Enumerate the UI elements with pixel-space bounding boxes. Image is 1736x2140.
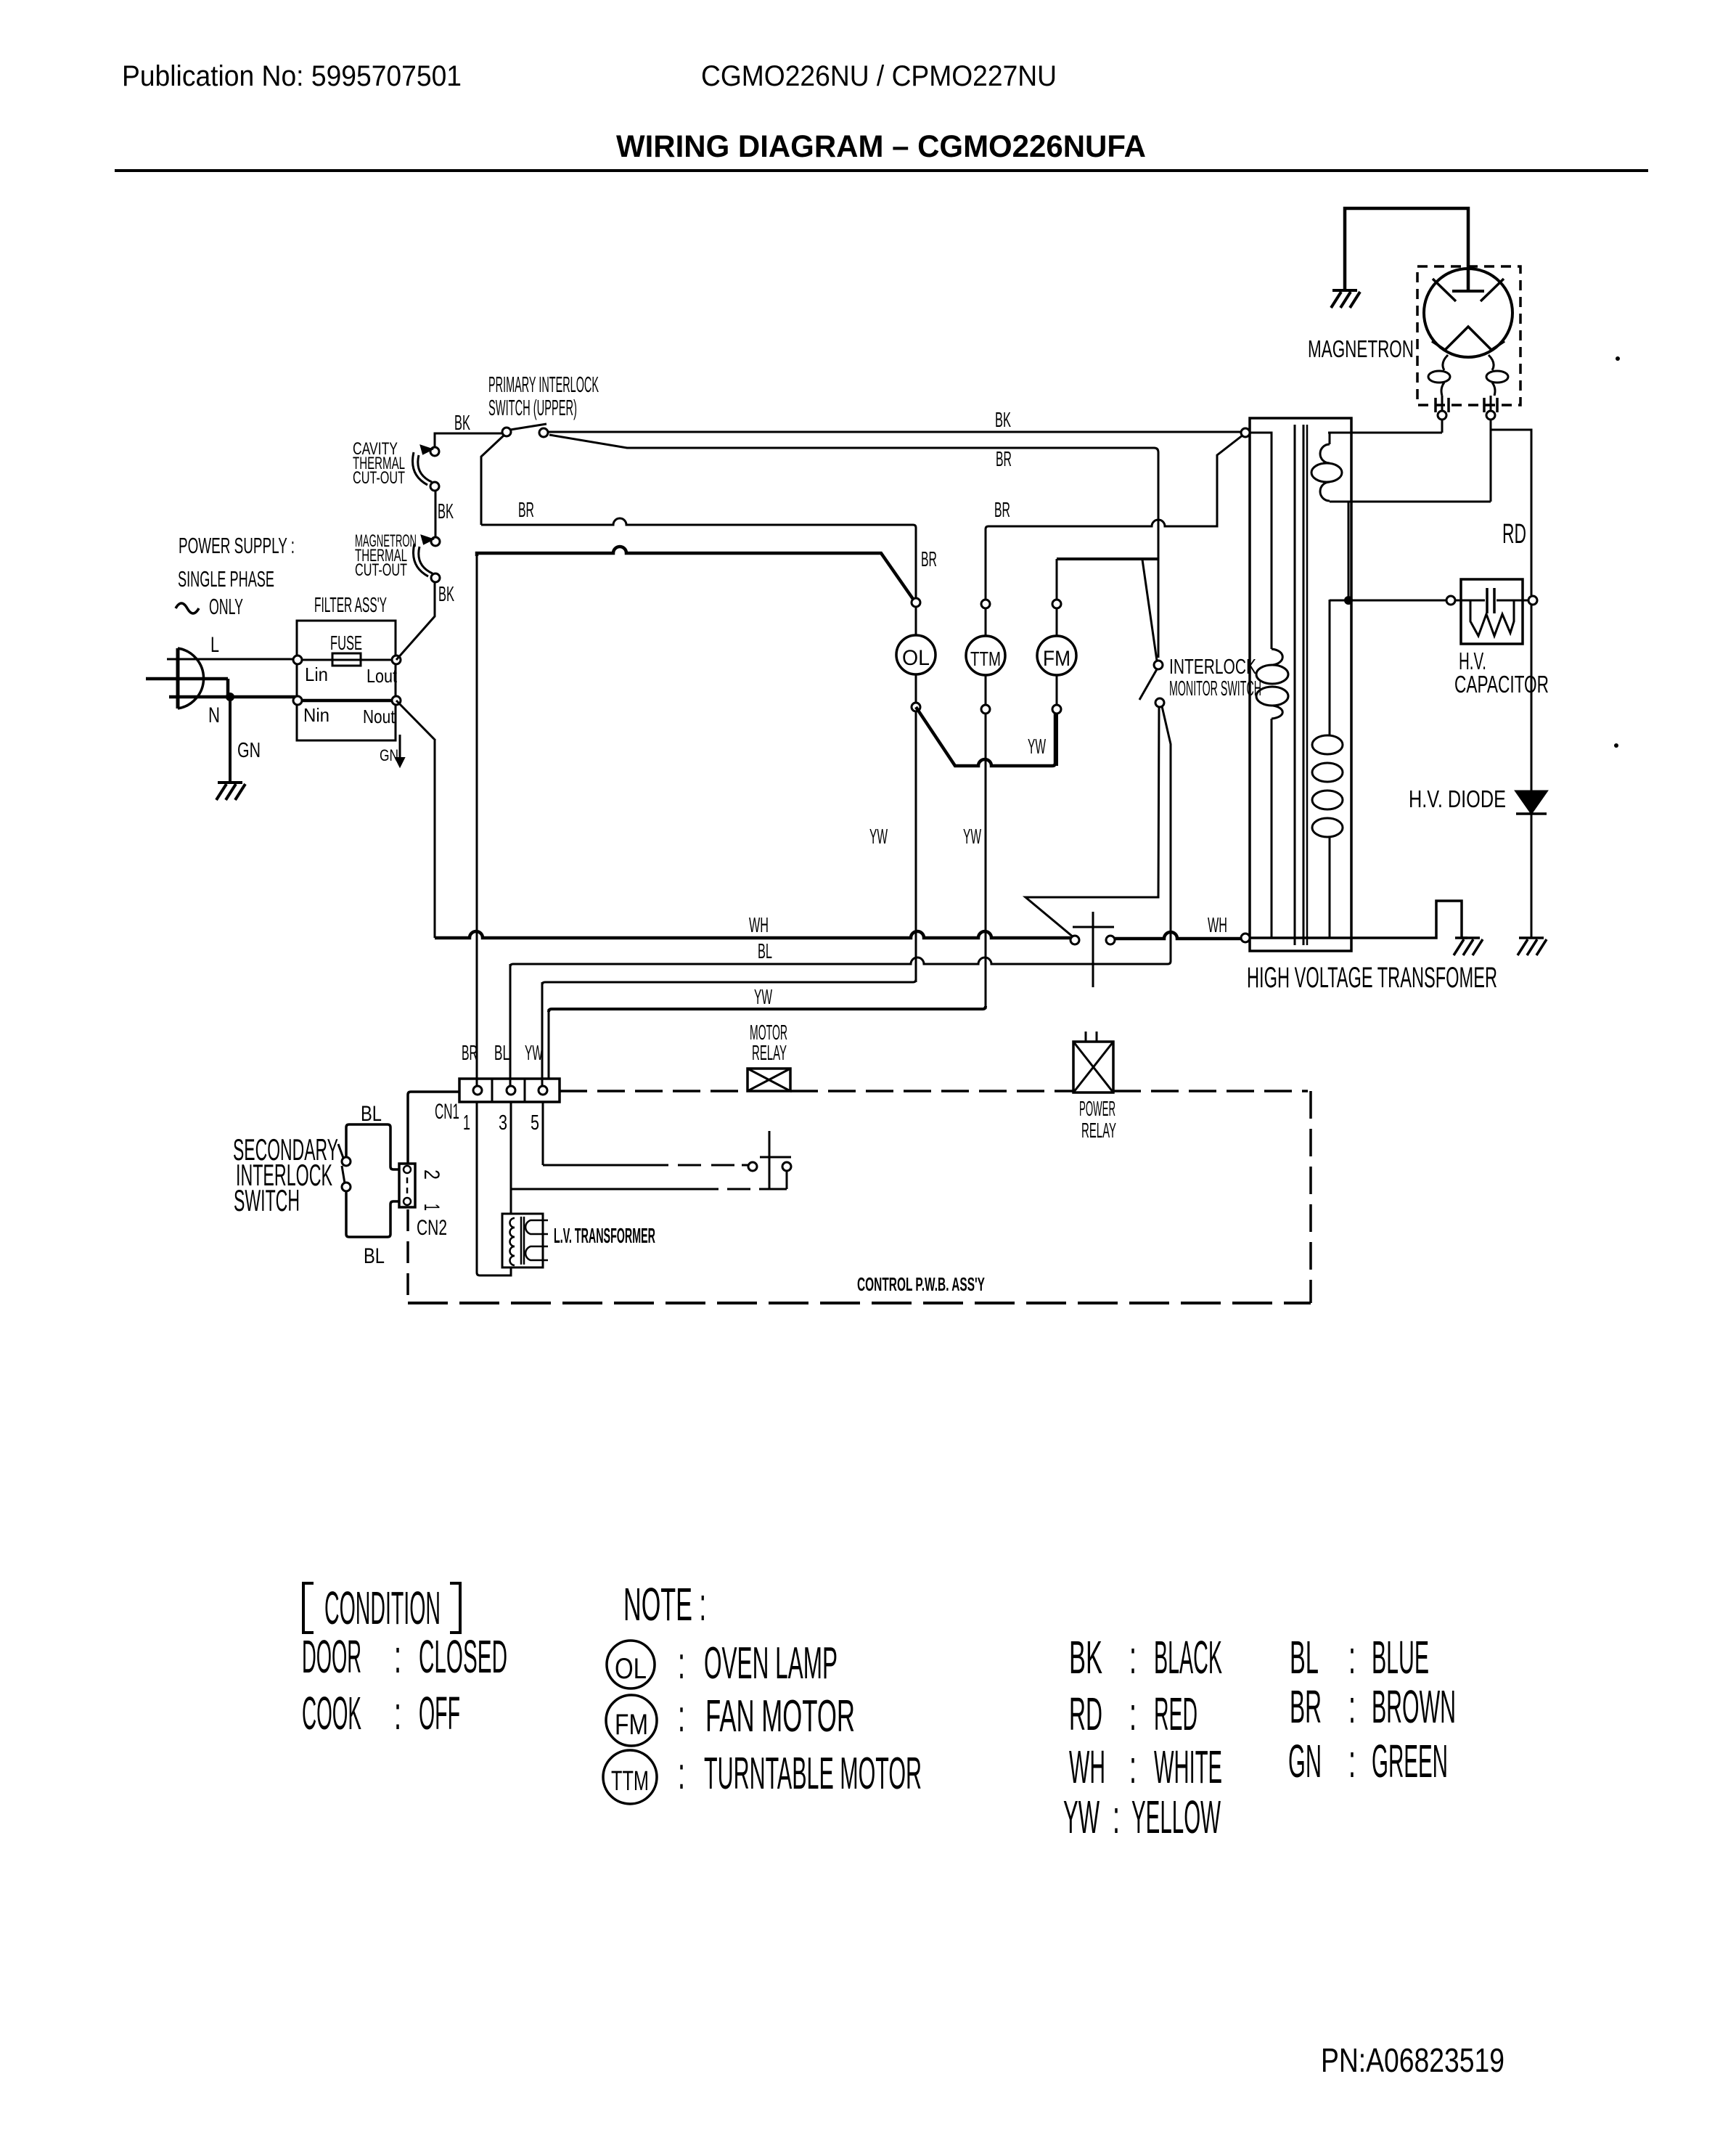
svg-text:CGMO226NU / CPMO227NU: CGMO226NU / CPMO227NU [701, 60, 1057, 92]
svg-text:BR: BR [1290, 1680, 1322, 1733]
svg-text:YW: YW [869, 825, 888, 849]
svg-text:ONLY: ONLY [209, 594, 243, 619]
svg-text:Lout: Lout [367, 665, 398, 687]
svg-text:PN:A06823519: PN:A06823519 [1321, 2041, 1504, 2079]
svg-text::: : [394, 1687, 401, 1739]
svg-text:POWER SUPPLY :: POWER SUPPLY : [179, 533, 295, 558]
svg-text:BK: BK [1069, 1631, 1102, 1683]
svg-text:OFF: OFF [419, 1687, 460, 1739]
svg-text:CN2: CN2 [417, 1216, 447, 1240]
svg-text:YW: YW [1063, 1791, 1100, 1843]
svg-text:CUT-OUT: CUT-OUT [355, 560, 407, 580]
svg-text:CAPACITOR: CAPACITOR [1454, 671, 1549, 698]
svg-text:SINGLE PHASE: SINGLE PHASE [178, 566, 274, 592]
svg-text:WH: WH [1208, 914, 1227, 937]
svg-text:RD: RD [1502, 519, 1526, 550]
svg-text:CONDITION: CONDITION [324, 1582, 441, 1634]
svg-text:BK: BK [438, 500, 454, 523]
svg-text:BK: BK [454, 412, 470, 435]
svg-text:BR: BR [518, 499, 534, 522]
svg-text:OL: OL [615, 1653, 647, 1685]
svg-text:BL: BL [364, 1244, 385, 1268]
svg-text:1: 1 [419, 1204, 443, 1211]
svg-text:Publication No: 5995707501: Publication No: 5995707501 [122, 60, 462, 92]
svg-text:BR: BR [996, 448, 1012, 471]
svg-text::: : [678, 1638, 685, 1688]
svg-text:L.V. TRANSFORMER: L.V. TRANSFORMER [554, 1225, 655, 1248]
svg-text:RELAY: RELAY [1081, 1119, 1116, 1143]
svg-text:5: 5 [531, 1111, 539, 1135]
svg-text:RED: RED [1154, 1688, 1197, 1740]
svg-text:GN: GN [237, 739, 261, 762]
svg-text:MONITOR SWITCH: MONITOR SWITCH [1169, 677, 1261, 701]
svg-text:YELLOW: YELLOW [1131, 1791, 1221, 1843]
svg-text:RELAY: RELAY [752, 1042, 787, 1065]
svg-text::: : [1348, 1631, 1356, 1683]
svg-text:CONTROL P.W.B. ASS'Y: CONTROL P.W.B. ASS'Y [857, 1273, 985, 1295]
svg-text:COOK: COOK [302, 1687, 361, 1739]
svg-text:TURNTABLE MOTOR: TURNTABLE MOTOR [704, 1749, 922, 1799]
svg-text:WH: WH [749, 914, 769, 937]
svg-text:NOTE :: NOTE : [623, 1578, 706, 1630]
svg-text::: : [678, 1691, 685, 1741]
svg-text:1: 1 [463, 1111, 470, 1135]
svg-text:YW: YW [963, 825, 981, 849]
svg-text:YW: YW [525, 1042, 543, 1065]
svg-text:BL: BL [361, 1102, 382, 1126]
svg-text:FILTER ASS'Y: FILTER ASS'Y [314, 594, 387, 617]
svg-text:GREEN: GREEN [1372, 1735, 1448, 1787]
svg-text:BL: BL [758, 940, 772, 963]
svg-text:SWITCH (UPPER): SWITCH (UPPER) [488, 395, 577, 420]
svg-text:BR: BR [921, 548, 937, 571]
svg-text:INTERLOCK: INTERLOCK [1169, 656, 1256, 679]
svg-text:L: L [210, 633, 219, 657]
svg-text:FUSE: FUSE [330, 632, 362, 654]
svg-text:CUT-OUT: CUT-OUT [353, 468, 405, 488]
svg-text:YW: YW [1028, 735, 1046, 759]
svg-text:WIRING DIAGRAM – CGMO226NUFA: WIRING DIAGRAM – CGMO226NUFA [616, 129, 1146, 164]
svg-text:BR: BR [994, 499, 1010, 522]
svg-text:BLUE: BLUE [1372, 1631, 1429, 1683]
svg-text:FM: FM [615, 1709, 648, 1741]
svg-text:POWER: POWER [1079, 1098, 1115, 1121]
svg-text:Lin: Lin [305, 663, 328, 685]
svg-text:TTM: TTM [611, 1766, 649, 1797]
svg-text:N: N [208, 703, 220, 727]
svg-text:OL: OL [902, 646, 930, 670]
svg-text::: : [1113, 1791, 1120, 1843]
svg-text:TTM: TTM [970, 648, 1001, 670]
svg-text:RD: RD [1069, 1688, 1102, 1740]
svg-text:BR: BR [462, 1042, 478, 1065]
svg-text:PRIMARY INTERLOCK: PRIMARY INTERLOCK [488, 372, 599, 397]
svg-text::: : [1348, 1680, 1356, 1733]
svg-text::: : [1348, 1735, 1356, 1787]
svg-text:YW: YW [754, 986, 772, 1009]
svg-text:WHITE: WHITE [1154, 1741, 1222, 1793]
svg-text:BROWN: BROWN [1372, 1680, 1456, 1733]
svg-text::: : [1129, 1631, 1137, 1683]
svg-text::: : [1129, 1741, 1137, 1793]
svg-text:SWITCH: SWITCH [234, 1183, 300, 1217]
svg-text:WH: WH [1069, 1741, 1105, 1793]
svg-text:FAN MOTOR: FAN MOTOR [705, 1691, 855, 1741]
svg-text:CN1: CN1 [435, 1100, 459, 1124]
svg-text::: : [394, 1630, 401, 1683]
svg-text:BL: BL [494, 1042, 509, 1065]
svg-text::: : [678, 1749, 685, 1799]
svg-text:3: 3 [499, 1111, 507, 1135]
svg-text:BK: BK [995, 409, 1011, 432]
svg-text:FM: FM [1043, 647, 1070, 671]
svg-text:GN: GN [1288, 1735, 1322, 1787]
svg-text:H.V. DIODE: H.V. DIODE [1409, 785, 1506, 812]
svg-text:CLOSED: CLOSED [419, 1630, 507, 1683]
svg-text::: : [1129, 1688, 1137, 1740]
svg-text:GN: GN [380, 746, 398, 764]
svg-text:Nin: Nin [303, 704, 329, 726]
svg-text:HIGH VOLTAGE TRANSFOMER: HIGH VOLTAGE TRANSFOMER [1247, 962, 1497, 994]
svg-text:Nout: Nout [363, 706, 396, 727]
svg-text:BLACK: BLACK [1154, 1631, 1222, 1683]
svg-text:BK: BK [438, 583, 454, 606]
svg-text:BL: BL [1290, 1631, 1319, 1683]
svg-text:MAGNETRON: MAGNETRON [1308, 335, 1414, 362]
svg-text:DOOR: DOOR [302, 1630, 361, 1683]
svg-text:OVEN LAMP: OVEN LAMP [704, 1638, 838, 1688]
svg-text:2: 2 [419, 1169, 443, 1180]
